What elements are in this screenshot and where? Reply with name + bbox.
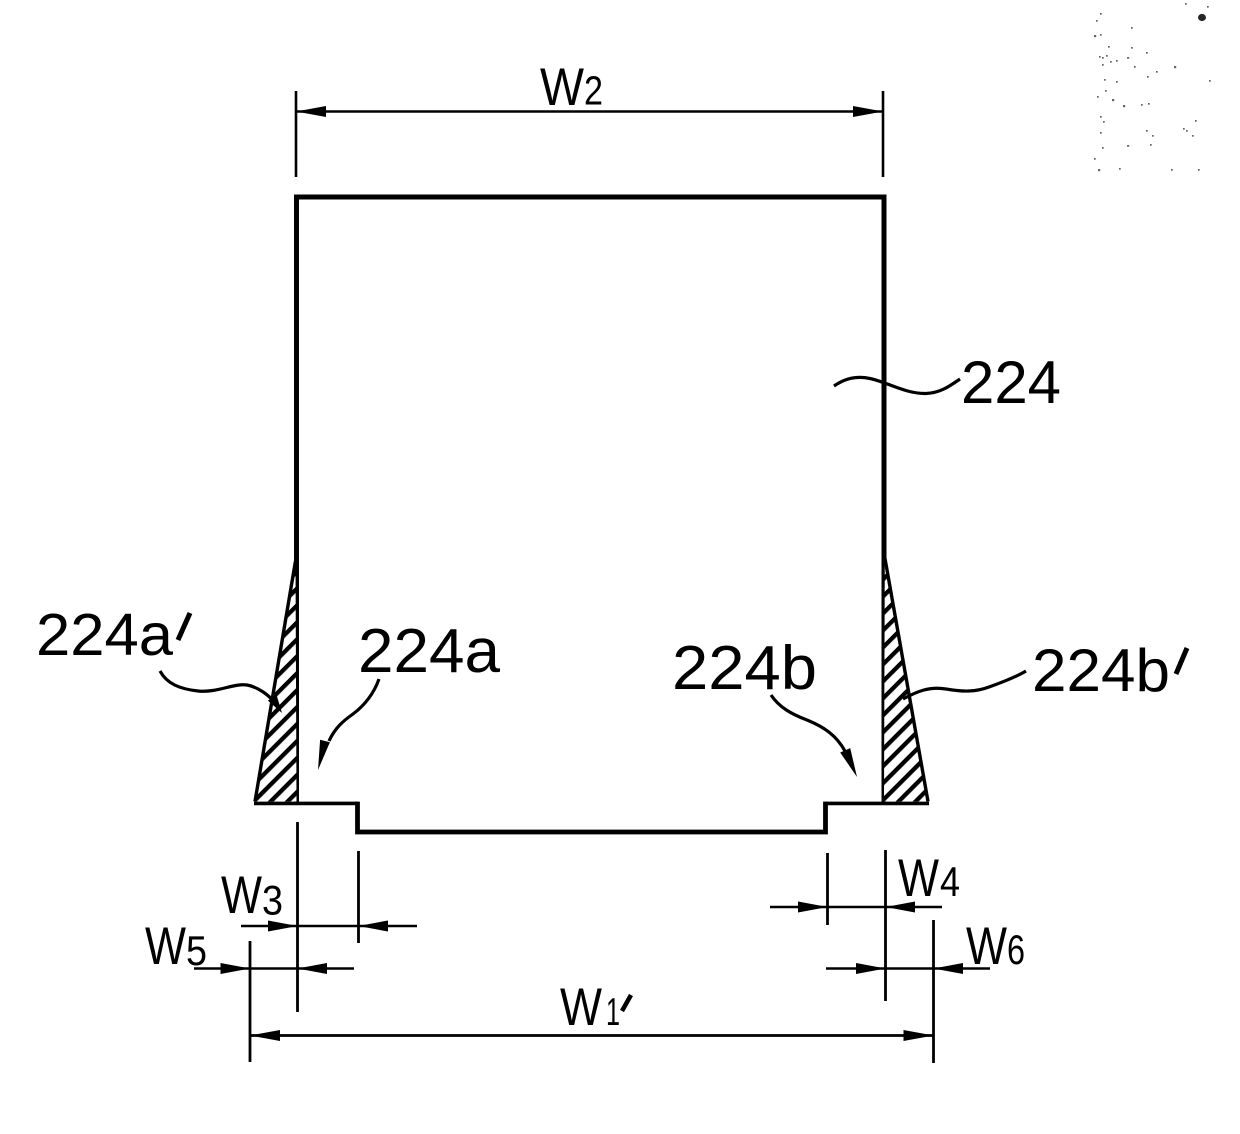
W1' right arrow xyxy=(904,1030,934,1041)
W4 right arrow (points left) xyxy=(886,902,916,913)
dimension W3 extension lines xyxy=(298,822,359,1012)
224a leader xyxy=(329,679,379,741)
dimension W6 extension line xyxy=(932,920,935,1063)
dimension W6 line xyxy=(826,967,990,970)
svg-text:224b: 224b xyxy=(672,634,817,703)
dimension W5 extension line xyxy=(249,941,252,1062)
svg-text:W: W xyxy=(966,917,1007,976)
W2 left arrow xyxy=(296,106,326,117)
dimension W4 line xyxy=(770,906,942,909)
W4 left arrow (points right) xyxy=(798,902,828,913)
label 224b' prime tick xyxy=(1176,648,1187,674)
W3 left arrow (points right) xyxy=(268,921,298,932)
svg-text:224a: 224a xyxy=(36,602,173,668)
224a' leader xyxy=(160,671,276,704)
svg-text:2: 2 xyxy=(584,68,603,114)
W6 left arrow (points right) xyxy=(856,963,886,974)
svg-text:W: W xyxy=(898,849,939,908)
224a leader arrowhead xyxy=(318,740,330,770)
dimension W5 line xyxy=(194,967,354,970)
dimension W4 extension lines xyxy=(828,850,886,1001)
224b' leader xyxy=(903,671,1026,699)
dimension W1' line xyxy=(250,1034,934,1037)
fillet 224a' (left hatched triangle) xyxy=(255,561,297,802)
svg-text:W: W xyxy=(560,978,602,1037)
svg-text:224: 224 xyxy=(961,349,1061,416)
svg-text:W: W xyxy=(540,58,584,117)
label 224a' prime tick xyxy=(178,613,190,640)
fillet 224b' (right hatched triangle) xyxy=(884,558,928,802)
svg-text:W: W xyxy=(221,866,262,925)
W2 right arrow xyxy=(853,106,883,117)
svg-text:3: 3 xyxy=(262,877,283,924)
svg-text:4: 4 xyxy=(940,858,960,905)
scan speckle top-right xyxy=(1094,3,1211,171)
svg-text:W: W xyxy=(145,917,186,976)
224a' leader arrowhead xyxy=(268,695,282,713)
svg-text:1: 1 xyxy=(606,991,620,1034)
W5 left arrow (points right) xyxy=(221,963,251,974)
W3 right arrow (points left) xyxy=(359,921,389,932)
W1' prime tick xyxy=(622,995,631,1011)
body 224 outline: top and side edges xyxy=(297,197,885,805)
label 224 leader xyxy=(834,377,960,393)
224b leader arrowhead xyxy=(840,748,857,777)
W6 right arrow (points left) xyxy=(934,963,964,974)
svg-text:224b: 224b xyxy=(1032,637,1170,704)
W5 right arrow (points left) xyxy=(298,963,328,974)
dimension W2 extension lines xyxy=(296,91,883,177)
W1' left arrow xyxy=(250,1030,280,1041)
dimension W3 line xyxy=(241,925,417,928)
dimension W2 line xyxy=(296,110,883,113)
svg-text:5: 5 xyxy=(186,927,207,974)
svg-text:224a: 224a xyxy=(358,617,501,686)
body 224 bottom stepped edge xyxy=(254,802,929,806)
svg-text:6: 6 xyxy=(1007,926,1025,973)
224b leader xyxy=(771,695,845,751)
